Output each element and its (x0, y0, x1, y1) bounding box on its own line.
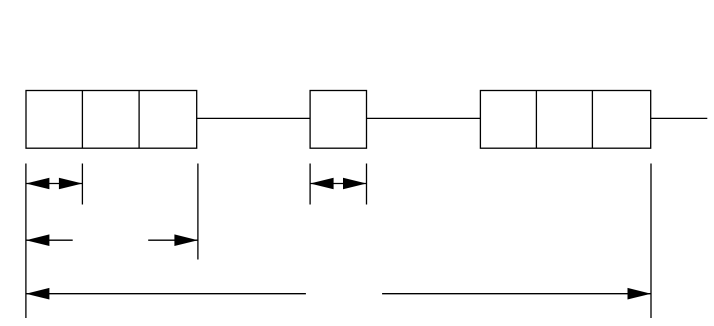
extension line E2 (81, 164, 83, 205)
arrowhead D1 left (26, 178, 50, 190)
dimension D4 left segment (26, 293, 306, 295)
box group 1 outline (26, 91, 197, 149)
wire segment 3 (651, 117, 708, 119)
wire segment 1 (197, 117, 310, 119)
box group 2 divider 1 (535, 91, 537, 149)
extension line E3 (197, 164, 199, 260)
dimension D3 left tail (26, 239, 73, 241)
dimension D1 line (26, 183, 83, 185)
dimension D4 right segment (382, 293, 651, 295)
arrowhead D3 left (26, 234, 50, 246)
middle box (310, 91, 366, 149)
arrowhead D2 right (343, 178, 367, 190)
dimension D2 line (310, 183, 366, 185)
arrowhead D2 left (310, 178, 334, 190)
extension line E5 (366, 164, 368, 205)
box group 2 divider 2 (591, 91, 593, 149)
arrowhead D4 right (628, 288, 652, 300)
extension line E6 (650, 164, 652, 319)
extension line E4 (309, 164, 311, 205)
wire segment 2 (367, 117, 481, 119)
box group 1 divider 1 (81, 91, 83, 149)
arrowhead D4 left (26, 288, 50, 300)
arrowhead D1 right (59, 178, 83, 190)
extension line E1 (25, 164, 27, 319)
box group 1 divider 2 (138, 91, 140, 149)
arrowhead D3 right (174, 234, 198, 246)
dimension D3 right tail (148, 239, 198, 241)
box group 2 outline (480, 91, 650, 149)
